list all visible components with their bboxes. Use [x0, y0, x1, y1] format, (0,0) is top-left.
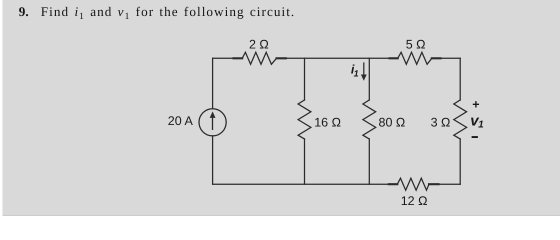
wire: right rail lower (3-ohm down to bottom-right corner) [459, 139, 461, 184]
title: problem statement text [19, 4, 295, 22]
svg-text:+: + [472, 98, 479, 112]
branch 80-ohm: wire from top node down [368, 58, 370, 100]
svg-text:5 Ω: 5 Ω [406, 38, 426, 52]
current arrow i1 (downward arrow at 80-ohm branch) [361, 63, 367, 81]
svg-text:12 Ω: 12 Ω [401, 194, 428, 208]
resistor 5-ohm (top right, horizontal) [390, 52, 441, 64]
wire: top-left segment (top-left corner to 2-ohm resistor) [213, 57, 234, 59]
current source 20 A (circle with upward arrow) [199, 109, 226, 136]
resistor 2-ohm (top left, horizontal) [234, 52, 286, 64]
svg-text:Find i1 and v1 for the followi: Find i1 and v1 for the following circuit… [41, 4, 295, 22]
svg-text:20 A: 20 A [168, 114, 194, 128]
svg-text:9.: 9. [19, 4, 29, 19]
wire: bottom-right segment (12-ohm to bottom-right corner) [439, 183, 461, 185]
wire: top-middle segment (2-ohm to 5-ohm across nodes A and B) [286, 57, 389, 59]
branch 80-ohm: wire to bottom node [368, 139, 370, 184]
polarity minus sign [472, 136, 478, 138]
resistor 3-ohm (vertical, right side) [454, 100, 467, 139]
wire: top-right segment (5-ohm to top-right corner) [441, 57, 461, 59]
svg-text:3 Ω: 3 Ω [431, 116, 451, 130]
resistor 80-ohm (vertical) [363, 100, 376, 139]
resistor 12-ohm (bottom, horizontal) [389, 178, 439, 190]
branch 16-ohm: wire from top node down [304, 58, 306, 100]
resistor 16-ohm (vertical) [298, 100, 311, 139]
wire: left rail upper (top-left corner down to current source) [212, 58, 214, 108]
svg-text:16 Ω: 16 Ω [314, 116, 341, 130]
svg-text:2 Ω: 2 Ω [249, 38, 269, 52]
svg-text:80 Ω: 80 Ω [379, 116, 406, 130]
wire: right rail upper (top-right corner down to 3-ohm) [459, 58, 461, 100]
wire: bottom segment (bottom-left corner to 12-ohm, across nodes) [213, 183, 389, 185]
branch 16-ohm: wire to bottom node [304, 139, 306, 184]
wire: left rail lower (current source down to bottom-left corner) [212, 136, 214, 184]
